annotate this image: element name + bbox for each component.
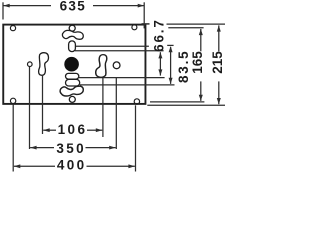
svg-text:635: 635 [60, 0, 86, 13]
svg-text:215: 215 [210, 51, 225, 74]
svg-text:350: 350 [56, 141, 86, 156]
svg-text:83.5: 83.5 [176, 50, 191, 83]
svg-text:66.7: 66.7 [151, 18, 166, 51]
svg-text:165: 165 [190, 51, 205, 74]
svg-text:106: 106 [58, 122, 88, 137]
svg-text:400: 400 [57, 157, 87, 172]
